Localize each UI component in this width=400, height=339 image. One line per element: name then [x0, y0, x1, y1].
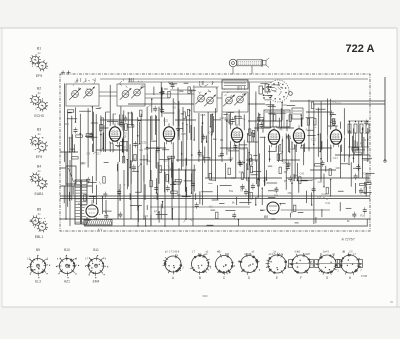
junction — [264, 180, 266, 182]
magic eye valve B8 — [265, 200, 281, 216]
svg-text:A 72767: A 72767 — [340, 238, 355, 242]
wire — [192, 170, 194, 226]
rectifier valve B7 — [84, 200, 100, 219]
mark — [390, 301, 393, 303]
junction — [330, 122, 332, 124]
wire — [128, 103, 194, 105]
svg-text:R12: R12 — [337, 102, 342, 106]
wire — [317, 108, 319, 157]
svg-text:C25: C25 — [286, 125, 291, 129]
wire — [150, 170, 152, 226]
terminal cross — [62, 71, 64, 75]
svg-text:R28: R28 — [226, 147, 231, 151]
svg-text:R3: R3 — [360, 142, 364, 146]
svg-text:25k: 25k — [282, 160, 287, 164]
wire — [109, 85, 111, 152]
RF tuning coil assembly S1 — [66, 78, 99, 106]
svg-text:R26: R26 — [64, 122, 69, 126]
svg-text:C52: C52 — [199, 154, 204, 158]
wire — [340, 122, 342, 178]
junction — [362, 128, 364, 130]
terminal — [384, 160, 386, 162]
svg-text:300: 300 — [336, 166, 341, 170]
wire — [263, 137, 265, 187]
wire — [71, 116, 73, 201]
wire — [127, 112, 129, 187]
svg-text:R7: R7 — [284, 179, 288, 183]
junction — [65, 218, 67, 220]
junction — [238, 142, 240, 144]
svg-text:C17: C17 — [69, 136, 74, 140]
svg-text:B8: B8 — [264, 215, 268, 219]
svg-text:C15: C15 — [229, 157, 234, 161]
svg-text:B4: B4 — [37, 165, 41, 169]
connector diagram A — [163, 251, 185, 275]
coil assembly L1 — [30, 54, 48, 71]
dial drive / tuning shaft — [229, 58, 269, 68]
svg-text:EL3: EL3 — [35, 280, 41, 284]
wire — [132, 113, 134, 163]
wire — [171, 160, 173, 219]
RF tuning coil assembly S2 — [117, 78, 145, 106]
wire — [95, 114, 97, 181]
svg-text:B1: B1 — [37, 47, 41, 51]
connector diagram F — [289, 251, 314, 274]
svg-text:C17: C17 — [333, 156, 338, 160]
wire top bus — [100, 78, 368, 80]
svg-text:C41: C41 — [132, 157, 137, 161]
connector diagram D — [238, 251, 261, 275]
junction — [303, 140, 305, 142]
wire — [348, 120, 369, 122]
junction — [140, 163, 142, 165]
output stage wiring lower — [266, 154, 348, 206]
coil assembly L3 — [30, 135, 48, 152]
wire — [198, 113, 200, 162]
svg-text:B5: B5 — [37, 208, 41, 212]
oscillator padder bar — [222, 80, 248, 89]
oscillator coil assembly S3 — [193, 81, 219, 112]
svg-text:EF9: EF9 — [36, 155, 42, 159]
valve B2 — [161, 123, 178, 144]
wire — [290, 100, 370, 102]
wire — [177, 88, 179, 163]
valve base EL3 — [27, 255, 50, 278]
wire — [140, 114, 142, 193]
svg-text:C12: C12 — [321, 192, 326, 196]
wire — [100, 119, 160, 121]
svg-text:C25: C25 — [201, 113, 206, 117]
bottom strip wiring — [118, 201, 367, 227]
valve B1 — [107, 123, 124, 144]
junction — [137, 135, 139, 137]
wire — [358, 121, 360, 178]
junction — [349, 130, 351, 132]
connector diagram H — [338, 251, 363, 275]
wire — [79, 114, 81, 183]
wire — [164, 117, 166, 192]
svg-text:EAB1: EAB1 — [35, 192, 44, 196]
wire — [60, 218, 370, 220]
wire — [172, 98, 174, 199]
wire — [123, 170, 125, 226]
junction — [211, 134, 213, 136]
wire — [348, 121, 350, 157]
svg-text:C38: C38 — [271, 112, 276, 116]
wire — [164, 172, 166, 226]
svg-text:C4: C4 — [220, 116, 224, 120]
coil assembly L4 — [30, 172, 48, 189]
svg-text:C4: C4 — [240, 185, 244, 189]
wire — [202, 114, 204, 205]
valve B6 — [328, 126, 345, 147]
wire — [191, 90, 193, 182]
wire — [69, 160, 71, 226]
page right edge — [396, 28, 398, 307]
junction — [318, 134, 320, 136]
wire — [67, 112, 69, 207]
wire — [367, 133, 369, 147]
ballast resistor bar — [84, 220, 112, 226]
svg-text:0,1: 0,1 — [209, 205, 213, 209]
wire — [310, 169, 336, 171]
valve B5 — [291, 125, 308, 146]
wire — [100, 116, 102, 153]
resistor ladder R1 — [348, 124, 351, 133]
valve B3 — [229, 124, 246, 145]
svg-text:P72B: P72B — [361, 274, 368, 278]
wire — [99, 95, 117, 97]
svg-text:R24: R24 — [168, 81, 173, 85]
svg-text:EBL1: EBL1 — [35, 235, 44, 239]
svg-text:50k: 50k — [293, 173, 298, 177]
svg-text:C31: C31 — [127, 111, 132, 115]
ladder wiring — [348, 120, 375, 197]
junction — [248, 152, 250, 154]
svg-text:C12: C12 — [348, 131, 353, 135]
junction — [100, 134, 102, 136]
page left edge — [1, 28, 3, 307]
wire — [60, 167, 66, 169]
coil assembly L5 — [30, 215, 48, 232]
wire — [185, 158, 187, 219]
svg-text:C44: C44 — [325, 201, 330, 205]
wire — [149, 116, 151, 181]
svg-text:25k: 25k — [271, 217, 276, 221]
connector diagram C — [215, 251, 236, 275]
junction — [185, 218, 187, 220]
junction — [80, 133, 82, 135]
oscillator wiring — [147, 81, 196, 141]
wire — [370, 100, 385, 102]
svg-text:C41: C41 — [300, 171, 305, 175]
valve base AZ1 — [56, 255, 79, 278]
wire — [349, 133, 351, 147]
switch contact cluster — [259, 84, 279, 100]
junction — [353, 157, 355, 159]
power supply wiring — [64, 151, 111, 221]
svg-text:4 V: 4 V — [98, 228, 103, 232]
svg-text:E: E — [276, 276, 278, 280]
svg-text:C4: C4 — [113, 112, 117, 116]
svg-text:4,7: 4,7 — [274, 186, 278, 190]
svg-text:B2: B2 — [37, 87, 41, 91]
wire — [146, 107, 148, 165]
svg-text:C8: C8 — [136, 142, 140, 146]
page top edge — [0, 27, 397, 29]
wire — [308, 100, 310, 152]
page bottom edge — [2, 306, 400, 308]
wire — [353, 128, 355, 162]
connector diagram E — [266, 251, 290, 274]
junction — [281, 139, 283, 141]
wire — [313, 104, 315, 224]
svg-text:300: 300 — [274, 194, 279, 198]
wire — [60, 185, 92, 187]
svg-text:10k: 10k — [147, 159, 152, 163]
svg-text:AZ1: AZ1 — [64, 280, 70, 284]
svg-text:F: F — [300, 276, 302, 280]
wire — [367, 128, 369, 162]
svg-text:C17: C17 — [96, 151, 101, 155]
wire — [255, 92, 257, 163]
mains transformer T1 — [66, 166, 87, 224]
coil assembly L2 — [30, 94, 48, 111]
junction — [258, 178, 260, 180]
wire — [226, 112, 228, 155]
wire — [355, 133, 357, 147]
svg-text:C22: C22 — [163, 119, 168, 123]
wire — [362, 127, 364, 178]
wire — [300, 147, 332, 149]
wire — [327, 99, 329, 163]
svg-text:R3: R3 — [220, 138, 224, 142]
svg-text:B10: B10 — [64, 248, 70, 252]
junction — [137, 225, 139, 227]
wire — [178, 168, 180, 226]
wire — [220, 147, 248, 149]
junction — [164, 225, 166, 227]
junction — [146, 147, 148, 149]
svg-text:25k: 25k — [288, 191, 293, 195]
wire — [157, 162, 159, 219]
svg-text:C27: C27 — [318, 180, 323, 184]
output stage wiring — [265, 99, 341, 153]
wire — [348, 146, 369, 148]
wire — [269, 137, 271, 162]
svg-text:B11: B11 — [93, 248, 99, 252]
wire — [254, 127, 294, 129]
svg-text:B9: B9 — [36, 248, 40, 252]
junction — [202, 122, 204, 124]
wire — [221, 113, 223, 162]
wire — [257, 113, 259, 198]
oscillator wiring b — [201, 112, 267, 142]
connector diagram B — [190, 251, 212, 275]
svg-text:C18: C18 — [312, 177, 317, 181]
svg-text:R7: R7 — [154, 209, 158, 213]
wire top bus 2 — [128, 81, 272, 83]
wire aerial lead — [384, 77, 386, 161]
wire — [60, 198, 370, 200]
wire — [99, 91, 117, 93]
wire — [282, 159, 300, 161]
svg-text:0,1: 0,1 — [231, 176, 235, 180]
wire — [205, 177, 282, 179]
wire — [117, 162, 119, 219]
svg-text:EF9: EF9 — [36, 74, 42, 78]
wire — [170, 89, 194, 91]
wire — [361, 133, 363, 147]
wire — [330, 116, 332, 162]
wire — [150, 206, 250, 208]
wire — [248, 120, 282, 122]
wire — [248, 103, 265, 105]
connector diagram G — [315, 251, 340, 275]
wire — [229, 113, 231, 162]
IF coil can 2 — [292, 108, 303, 119]
wire — [215, 108, 217, 181]
wire — [158, 107, 160, 184]
svg-text:0,1: 0,1 — [139, 148, 143, 152]
svg-text:C18: C18 — [363, 171, 368, 175]
wire — [291, 137, 293, 213]
wire — [60, 195, 370, 197]
detector wiring — [198, 143, 265, 205]
junction — [291, 183, 293, 185]
junction — [344, 138, 346, 140]
junction — [320, 158, 322, 160]
wire — [145, 97, 170, 99]
wire — [277, 136, 279, 162]
svg-text:C8: C8 — [233, 147, 237, 151]
svg-text:EM4: EM4 — [93, 280, 100, 284]
wire — [119, 115, 121, 163]
valve B4 — [266, 126, 283, 147]
junction — [143, 218, 145, 220]
svg-text:C8: C8 — [172, 105, 176, 109]
svg-text:C17: C17 — [189, 89, 194, 93]
wire — [186, 116, 188, 166]
wire — [130, 160, 132, 219]
wire — [246, 159, 258, 161]
svg-text:C35: C35 — [142, 141, 147, 145]
svg-text:B3: B3 — [37, 128, 41, 132]
smudge — [202, 295, 208, 297]
svg-text:0,1: 0,1 — [287, 163, 291, 167]
resistor ladder R4 — [366, 124, 369, 133]
wire — [143, 155, 145, 219]
svg-text:B6: B6 — [331, 118, 335, 122]
wire — [64, 83, 66, 162]
wire — [260, 209, 330, 211]
resistor ladder R3 — [360, 124, 363, 133]
wire — [155, 116, 157, 169]
junction — [269, 158, 271, 160]
wire — [243, 114, 245, 178]
wire — [93, 112, 95, 152]
svg-text:C12: C12 — [311, 137, 316, 141]
svg-text:C15: C15 — [168, 156, 173, 160]
wire — [137, 166, 139, 226]
wire — [343, 108, 345, 162]
wire — [65, 152, 67, 219]
wire — [238, 110, 240, 162]
svg-text:25k: 25k — [158, 107, 163, 111]
wire — [96, 149, 128, 151]
svg-text:300: 300 — [105, 110, 110, 114]
junction — [191, 154, 193, 156]
wire — [176, 159, 232, 161]
wire — [100, 127, 115, 129]
wire — [306, 111, 330, 113]
wire — [175, 119, 196, 121]
wire — [335, 154, 370, 156]
svg-text:R26: R26 — [360, 213, 365, 217]
svg-text:C18: C18 — [239, 170, 244, 174]
wire — [294, 129, 296, 179]
IF transformer can — [264, 110, 290, 127]
wire — [60, 151, 78, 153]
wire — [281, 136, 283, 162]
svg-text:R9: R9 — [284, 170, 288, 174]
svg-text:10k: 10k — [362, 138, 367, 142]
wire — [320, 101, 322, 178]
wire — [211, 114, 213, 178]
resistor ladder R2 — [354, 124, 357, 133]
wire — [182, 107, 184, 167]
svg-text:B: B — [199, 276, 201, 280]
wire — [248, 82, 250, 192]
svg-text:722 A: 722 A — [346, 43, 375, 55]
wire — [217, 97, 222, 99]
wire — [145, 93, 194, 95]
IF wiring — [117, 141, 196, 201]
chassis outline (dash-dot) — [60, 74, 370, 231]
wire — [146, 147, 166, 149]
svg-text:50k: 50k — [229, 189, 234, 193]
svg-text:C44: C44 — [240, 147, 245, 151]
valve base EM4 — [85, 255, 108, 278]
svg-text:C44: C44 — [208, 130, 213, 134]
wire — [303, 131, 305, 165]
wire — [207, 112, 209, 178]
wire — [235, 115, 237, 178]
svg-text:B3: B3 — [226, 119, 230, 123]
svg-text:C22: C22 — [144, 147, 149, 151]
oscillator coil assembly S4 — [222, 86, 248, 112]
wave band switch SK — [267, 80, 292, 102]
junction — [109, 141, 111, 143]
svg-text:0,5: 0,5 — [86, 152, 90, 156]
wire — [285, 133, 287, 189]
wire — [123, 110, 125, 162]
svg-text:ECH3: ECH3 — [34, 114, 43, 118]
svg-text:C31: C31 — [282, 103, 287, 107]
wire — [87, 108, 89, 167]
wire — [84, 225, 368, 227]
front-end wiring — [64, 106, 147, 152]
terminal cross — [68, 71, 70, 75]
svg-text:C25: C25 — [181, 132, 186, 136]
wire — [160, 169, 196, 171]
wire — [105, 112, 107, 152]
wire — [313, 103, 385, 105]
wire — [232, 67, 234, 74]
wire — [251, 66, 253, 74]
svg-text:25k: 25k — [80, 162, 85, 166]
wire — [286, 177, 370, 179]
